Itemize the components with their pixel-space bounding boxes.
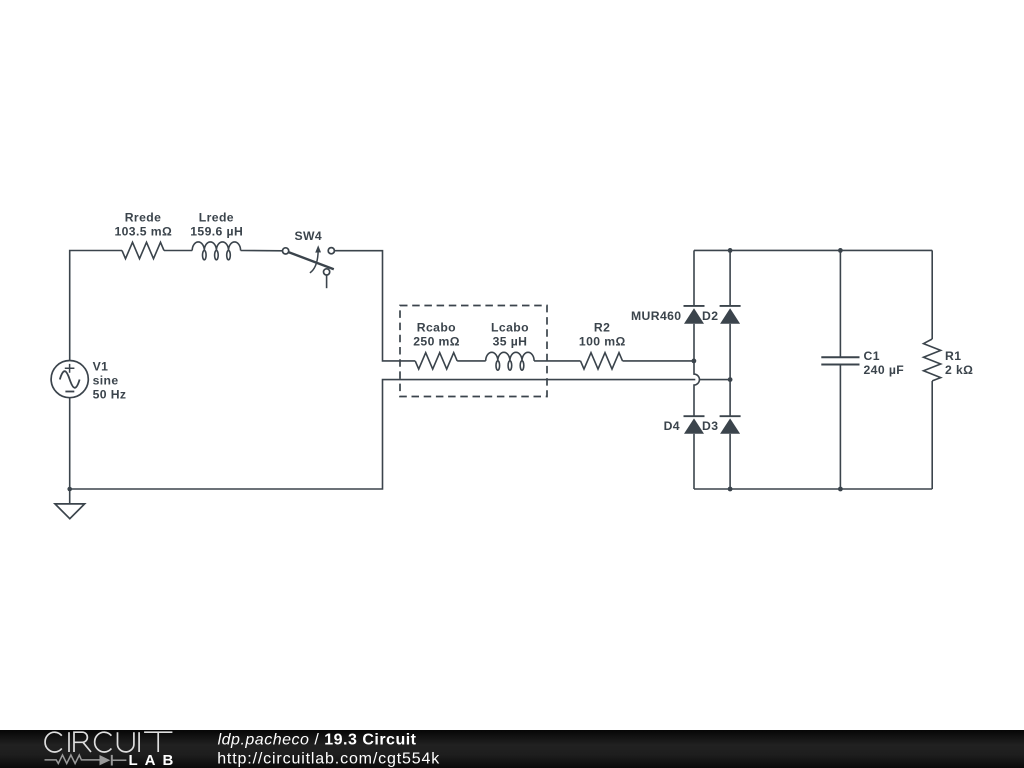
wire ground stub (69, 489, 71, 504)
wire bridge bottom rail (694, 488, 932, 490)
svg-text:Rcabo: Rcabo (417, 321, 456, 335)
bridge left rail top (D2 anode wire) (693, 250, 695, 306)
junction node A (R2 to bridge) (692, 359, 697, 364)
junction top rail at D3 column (728, 248, 733, 253)
wire V1 top to Rrede (70, 251, 122, 361)
junction node B (return to bridge) (728, 377, 733, 382)
wire C1 bottom (839, 365, 841, 490)
wire Lcabo to R2 (534, 360, 580, 362)
inductor Lrede (192, 242, 240, 251)
svg-text:Rrede: Rrede (125, 210, 162, 224)
svg-text:240 µF: 240 µF (864, 363, 905, 377)
voltage source V1 (51, 361, 88, 398)
wire R1 top (931, 250, 933, 339)
diode D4 (684, 415, 705, 417)
svg-text:2 kΩ: 2 kΩ (945, 363, 973, 377)
footer bar (0, 730, 1024, 768)
resistor Rcabo (415, 353, 457, 369)
resistor R1 (924, 339, 941, 381)
svg-text:50 Hz: 50 Hz (93, 387, 127, 401)
logo resistor-diode glyph (45, 755, 127, 766)
svg-text:C1: C1 (864, 349, 880, 363)
junction bottom rail at C1 (838, 487, 843, 492)
svg-text:103.5 mΩ: 103.5 mΩ (114, 224, 172, 238)
wire V1 bottom (69, 398, 71, 489)
diode D2b (720, 305, 741, 307)
svg-text:sine: sine (93, 373, 119, 387)
svg-text:Lcabo: Lcabo (491, 321, 529, 335)
junction top rail at C1 (838, 248, 843, 253)
diode D3 (729, 380, 731, 417)
wire Lrede to SW4 (241, 250, 283, 252)
wire SW4 to corner down to Rcabo (335, 251, 416, 361)
wire C1 top (839, 250, 841, 357)
diode D2 (MUR460) (684, 305, 705, 307)
svg-text:D4: D4 (664, 419, 680, 433)
resistor Rrede (122, 242, 164, 258)
logo CIRCUIT letters (45, 732, 172, 752)
svg-text:MUR460: MUR460 (631, 309, 682, 323)
svg-text:250 mΩ: 250 mΩ (413, 335, 460, 349)
wire return right of hop (700, 379, 730, 381)
svg-text:R2: R2 (594, 321, 610, 335)
wire bottom return (70, 380, 696, 489)
capacitor C1 (821, 357, 859, 364)
cable box dashed (400, 306, 547, 397)
wire bridge top rail (694, 249, 932, 251)
svg-text:35 µH: 35 µH (493, 335, 528, 349)
wire Rcabo to Lcabo (457, 360, 486, 362)
svg-text:D3: D3 (702, 419, 718, 433)
resistor R2 (581, 353, 623, 369)
hop of left rail over return wire (694, 361, 699, 416)
wire Rrede to Lrede (164, 250, 192, 252)
svg-text:ldp.pacheco / 19.3 Circuit: ldp.pacheco / 19.3 Circuit (218, 731, 417, 748)
junction bottom rail at D3 column (728, 487, 733, 492)
svg-text:159.6 µH: 159.6 µH (190, 224, 243, 238)
bridge right rail top (729, 250, 731, 306)
svg-text:SW4: SW4 (294, 229, 322, 243)
svg-text:V1: V1 (93, 359, 109, 373)
junction node at V1 bottom (67, 487, 72, 492)
svg-text:100 mΩ: 100 mΩ (579, 335, 626, 349)
svg-text:http://circuitlab.com/cgt554k: http://circuitlab.com/cgt554k (217, 751, 440, 768)
svg-text:R1: R1 (945, 349, 961, 363)
switch SW4 (283, 248, 335, 275)
ground (55, 504, 85, 519)
inductor Lcabo (486, 352, 534, 361)
svg-text:LAB: LAB (129, 752, 181, 768)
wire R2 to bridge node A (623, 360, 694, 362)
wire R1 bottom (931, 381, 933, 489)
svg-text:Lrede: Lrede (199, 210, 234, 224)
svg-text:D2: D2 (702, 309, 718, 323)
